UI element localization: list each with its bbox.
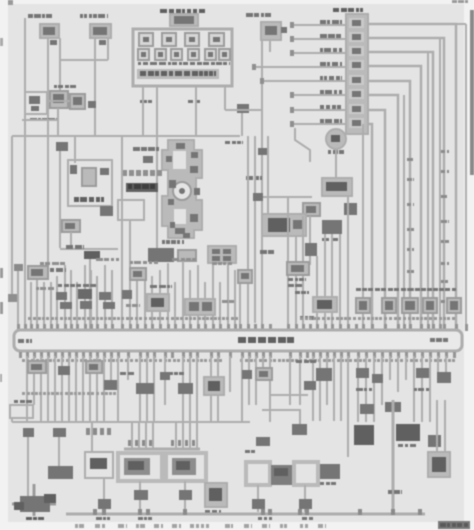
wire C100 pin 3 to PCM bbox=[368, 52, 433, 330]
wire pcm out x27 bbox=[26, 356, 28, 422]
label bb5 bbox=[120, 372, 126, 375]
label ignition coil bbox=[133, 147, 140, 151]
wire pcm out x147 bbox=[146, 356, 148, 422]
wire 310 down bbox=[309, 216, 311, 265]
label battery feed bbox=[80, 14, 83, 18]
wire pcm out x90 bbox=[89, 356, 91, 422]
label lr6 bbox=[388, 490, 392, 494]
wire sol right down bbox=[304, 485, 306, 512]
page number top right bbox=[452, 0, 457, 3]
distributor inner cavity bbox=[173, 151, 186, 169]
label dist lower bbox=[162, 240, 165, 244]
D1 body bbox=[265, 26, 277, 35]
distributor mark b bbox=[190, 166, 198, 173]
wire S1 down2 bbox=[59, 38, 61, 96]
inline connector mark bbox=[258, 148, 268, 155]
splice rung 6 bbox=[290, 92, 294, 98]
wire id label mid bbox=[407, 158, 413, 161]
splice rung 5 bbox=[260, 78, 264, 84]
margin caption bbox=[154, 524, 159, 528]
wire 268 down bbox=[267, 136, 269, 215]
servo M1 outline bbox=[68, 160, 112, 206]
mid a body bbox=[306, 206, 316, 213]
component ab6 bbox=[185, 299, 215, 315]
wire pcm out x438 bbox=[437, 356, 439, 380]
connector C100 shell bbox=[346, 14, 368, 134]
margin caption bbox=[118, 524, 124, 528]
ab9 body bbox=[317, 300, 332, 309]
wire id label mid bbox=[407, 270, 410, 273]
wire 296 down bbox=[295, 236, 297, 330]
C100 pin 1 bbox=[352, 20, 361, 26]
wire ll3 down bbox=[91, 422, 93, 452]
wire pcm pin x145 bbox=[144, 270, 146, 330]
label lower left box bbox=[14, 400, 18, 403]
margin caption bbox=[172, 524, 177, 528]
label rung 3 bbox=[320, 48, 323, 52]
label power distribution box bbox=[160, 9, 167, 13]
cluster bb6 bbox=[178, 383, 193, 394]
cluster bb10 bbox=[304, 381, 316, 390]
rb1 body bbox=[359, 301, 367, 310]
C100 pin 6 cavity bbox=[349, 89, 364, 99]
C100 pin 4 cavity bbox=[349, 60, 364, 70]
cluster lr4 bbox=[396, 424, 420, 441]
wire pcm pin x57 bbox=[56, 276, 58, 330]
component ab3 bbox=[130, 268, 146, 280]
solenoid box left bbox=[246, 462, 270, 485]
component lc2 bbox=[256, 437, 270, 446]
splice o2 left bbox=[134, 490, 148, 500]
label icm text bbox=[128, 184, 132, 189]
ab5 body bbox=[151, 298, 164, 307]
ground cluster l bbox=[14, 502, 24, 510]
wire jog bb bbox=[270, 356, 308, 395]
scan edge artifact right bbox=[470, 10, 474, 175]
HO2S left body bbox=[124, 458, 150, 475]
label bb11 bbox=[356, 388, 363, 391]
fuse F4 element bbox=[213, 37, 220, 42]
wire pcm out x249 bbox=[248, 356, 250, 405]
label ab9 bbox=[300, 316, 303, 320]
margin caption bbox=[262, 524, 267, 528]
distributor speck c bbox=[168, 199, 174, 205]
wire K1 down2 bbox=[107, 38, 109, 60]
label icm dark bar bbox=[126, 183, 158, 192]
wire main horizontal upper bbox=[12, 135, 240, 137]
fuse F1 element bbox=[143, 37, 149, 42]
wire pcm pin x175 bbox=[174, 282, 176, 330]
wire pcm out x320 bbox=[319, 356, 321, 421]
wire id label right bbox=[441, 195, 447, 198]
wire 90 down to PCM bbox=[89, 259, 91, 330]
wire pcm pin x112 bbox=[111, 270, 113, 330]
wire pcm pin x160 bbox=[159, 270, 161, 330]
component box ll4 bbox=[85, 452, 113, 478]
label bb6 bbox=[170, 372, 173, 375]
splice near fuse bbox=[237, 104, 249, 113]
fuse F8 element bbox=[191, 52, 196, 57]
relay grid m2 bbox=[223, 249, 231, 254]
wire id label mid bbox=[407, 248, 410, 251]
pin labels below left bbox=[22, 359, 25, 362]
wire J1-E2 bbox=[47, 100, 70, 102]
margin caption bbox=[190, 524, 194, 528]
rb5 body bbox=[450, 301, 458, 310]
wire pcm out x263 bbox=[262, 356, 264, 380]
scan mark topleft bbox=[8, 0, 13, 5]
PCM top pins bbox=[17, 324, 20, 331]
wire pcm pin x220 bbox=[219, 282, 221, 330]
C100 pin 7 bbox=[352, 106, 361, 112]
distributor speck f bbox=[183, 233, 190, 238]
rb2 body bbox=[385, 301, 393, 310]
C100 pin 5 cavity bbox=[349, 75, 364, 85]
speck row h bbox=[222, 300, 228, 303]
component small box lower bbox=[178, 250, 196, 261]
fuse F6 bbox=[155, 49, 166, 60]
speck row e bbox=[212, 262, 217, 265]
wire relay down2 bbox=[227, 263, 229, 330]
relay grid m1 bbox=[212, 249, 220, 254]
wire rung 4 left bbox=[252, 66, 346, 68]
wire pcm pin x205 bbox=[204, 282, 206, 330]
margin caption bbox=[318, 524, 323, 528]
module bracket box bbox=[118, 200, 144, 220]
wire 288 down bbox=[287, 197, 289, 330]
fuse box label bar bbox=[137, 69, 219, 79]
cluster bb11 bbox=[356, 368, 369, 378]
wire rung 2 left bbox=[290, 38, 346, 40]
wire pcm pin x190 bbox=[189, 270, 191, 330]
label ab8 a bbox=[288, 278, 293, 281]
wire left edge down bbox=[11, 136, 13, 296]
wire dist down1 bbox=[167, 263, 169, 330]
CKP mark bbox=[331, 135, 340, 142]
splice rung 7 bbox=[290, 107, 294, 113]
wire o2 right down bbox=[184, 481, 186, 512]
cluster bb5 bbox=[136, 383, 154, 394]
label rung 5 bbox=[320, 76, 323, 80]
HO2S left sensor box bbox=[118, 453, 162, 481]
cluster bb9 bbox=[316, 368, 332, 381]
fuse F2 bbox=[162, 33, 176, 46]
switch S1 bbox=[40, 24, 59, 38]
wire ll2 down bbox=[58, 437, 60, 470]
wire id label right bbox=[441, 170, 445, 173]
splice rung 8 bbox=[290, 121, 294, 127]
bb8 body bbox=[259, 371, 268, 377]
fuse F7 element bbox=[174, 52, 179, 57]
wire pcm pin x71 bbox=[70, 270, 72, 330]
label cluster mid-left bbox=[54, 85, 57, 88]
label lc3 bbox=[320, 482, 324, 485]
wire pcm pin x77 bbox=[76, 282, 78, 330]
sensor circle CKP bbox=[326, 129, 346, 149]
K1 body bbox=[93, 27, 107, 35]
stub o2l a bbox=[131, 423, 133, 449]
cluster ab2a2 bbox=[60, 302, 72, 309]
wire id band above bus right bbox=[300, 317, 303, 320]
wire C100 pin 5 to PCM bbox=[368, 81, 410, 330]
wire pcm out x382 bbox=[381, 356, 383, 405]
wire 332 down bbox=[331, 234, 333, 330]
main fuse F0 bbox=[170, 14, 198, 26]
junction box lower left bbox=[10, 405, 33, 418]
wire pcm out x446 bbox=[445, 356, 447, 380]
terminal upper left bbox=[14, 264, 23, 271]
component lc1 bbox=[292, 424, 307, 435]
relay grid m4 bbox=[223, 256, 231, 261]
PCM bottom pins bbox=[19, 352, 22, 358]
wire o2 left down bbox=[139, 481, 141, 512]
splice rung 3 bbox=[290, 50, 294, 56]
C100 pin 4 bbox=[352, 62, 361, 68]
cluster ab2c2 bbox=[103, 302, 115, 309]
scan mark left top bbox=[0, 38, 3, 46]
wire pcm pin x65 bbox=[64, 265, 66, 330]
splice o2 right bbox=[179, 490, 192, 500]
wire pcm out x97 bbox=[96, 356, 98, 422]
wire 255 down bbox=[254, 136, 256, 323]
splice sol left bbox=[252, 499, 265, 509]
scan mark left2 bbox=[0, 302, 3, 314]
wire rung 5 left bbox=[260, 80, 346, 82]
component lr1 bbox=[360, 404, 374, 414]
stub o2r a bbox=[175, 423, 177, 449]
wire left 48 down bbox=[47, 136, 49, 268]
stub o2l c bbox=[145, 423, 147, 449]
ll4 text bbox=[90, 458, 107, 469]
bb3 body bbox=[89, 364, 98, 370]
component mid a bbox=[303, 203, 320, 216]
ground cluster bottom left bbox=[12, 484, 56, 516]
wire id label right bbox=[441, 262, 445, 265]
C100 pin 8 cavity bbox=[349, 118, 364, 128]
wire from S1 left bbox=[24, 18, 26, 136]
margin caption right dark bbox=[438, 521, 470, 529]
cluster bb4 bbox=[104, 380, 117, 390]
ab7 body bbox=[241, 273, 249, 279]
fuse F7 bbox=[171, 49, 182, 60]
wire pcm pin x152 bbox=[151, 276, 153, 330]
wire pcm pin x235 bbox=[234, 270, 236, 330]
nul bbox=[294, 445, 296, 447]
wire K1 down bbox=[94, 38, 96, 136]
component rb3 bbox=[402, 298, 418, 313]
label rung 6 bbox=[320, 90, 324, 94]
splice rung 2 bbox=[290, 36, 294, 42]
wire id label mid bbox=[407, 178, 412, 181]
component bb3 bbox=[86, 361, 102, 373]
label c1 bbox=[205, 510, 210, 513]
fuse F8 bbox=[188, 49, 199, 60]
wire pcm pin x105 bbox=[104, 265, 106, 330]
J1 mark bbox=[29, 96, 40, 104]
fuse F10 element bbox=[222, 52, 227, 57]
speck row f bbox=[36, 287, 39, 290]
wire pcm out x300 bbox=[299, 356, 301, 405]
margin caption right text bbox=[440, 523, 446, 527]
wire C100 pin 6 to PCM bbox=[368, 95, 398, 330]
distributor speck b bbox=[191, 152, 198, 158]
fuse F4 bbox=[209, 33, 224, 46]
stub bbox=[11, 418, 13, 422]
speck row b bbox=[96, 258, 103, 261]
ab3 body bbox=[133, 271, 142, 277]
ground cluster mass bbox=[20, 496, 50, 512]
T1 body bbox=[65, 223, 75, 229]
component lr5 bbox=[428, 435, 441, 447]
label 262 bbox=[260, 250, 267, 254]
C100 pin 3 cavity bbox=[349, 46, 364, 56]
wire id label right bbox=[441, 300, 445, 303]
scan mark left bbox=[0, 268, 3, 278]
wire ll1 down bbox=[27, 437, 29, 502]
label rung 8 bbox=[320, 119, 324, 123]
C100 pin 5 bbox=[352, 77, 361, 83]
component ll2 bbox=[53, 428, 66, 437]
component bb1 bbox=[28, 361, 46, 373]
cluster ab2c bbox=[99, 292, 111, 300]
distributor cap mark bbox=[176, 143, 185, 149]
label small bbox=[66, 245, 73, 249]
wire id label mid bbox=[407, 288, 414, 291]
cluster bb12 bbox=[372, 374, 383, 383]
component dark box right bbox=[100, 206, 113, 216]
wire far left to PCM bbox=[17, 271, 19, 330]
component dark 310 bbox=[305, 243, 317, 256]
relay K1 bbox=[90, 24, 111, 38]
wire pcm out x358 bbox=[357, 356, 359, 422]
wire pcm pin x51 bbox=[50, 282, 52, 330]
label rung 4 bbox=[320, 62, 326, 66]
distributor mark c bbox=[169, 180, 176, 188]
relay cluster pin bbox=[293, 220, 302, 229]
splice block left bbox=[56, 142, 68, 151]
wire pcm out x256 bbox=[255, 356, 257, 405]
splice sol right bbox=[299, 499, 312, 509]
ground bus taps bbox=[93, 509, 97, 515]
wire id label right bbox=[441, 280, 444, 283]
component rb5 bbox=[447, 298, 461, 313]
component dark mass lower bbox=[148, 248, 174, 262]
fuse F5 bbox=[138, 49, 149, 60]
wire pcm pin x91 bbox=[90, 270, 92, 330]
wire 325 down bbox=[324, 234, 326, 330]
wire fuse to C bbox=[225, 109, 262, 111]
margin caption bbox=[95, 524, 100, 528]
label connector C100 bbox=[333, 8, 339, 12]
C100 pin 2 bbox=[352, 34, 361, 40]
wire pcm pin x44 bbox=[43, 282, 45, 330]
label g4 bbox=[258, 517, 262, 520]
wire pcm out x104 bbox=[103, 356, 105, 422]
wire pcm pin x37 bbox=[36, 265, 38, 330]
wire pcm out x211 bbox=[210, 356, 212, 422]
wire to label row bbox=[60, 248, 118, 250]
HO2S right sensor box bbox=[166, 453, 206, 481]
label power distribution text bbox=[140, 71, 146, 76]
wire cluster lower bbox=[22, 119, 58, 121]
label ab2 bbox=[58, 284, 62, 287]
relay grid m3 bbox=[212, 256, 220, 261]
solenoid bridge dark bbox=[271, 465, 293, 485]
ground bus bbox=[66, 513, 425, 516]
wire pcm out x190 bbox=[189, 356, 191, 422]
wire end terminal left bbox=[8, 294, 17, 302]
splice ab4 bbox=[122, 290, 132, 299]
wire splice down bbox=[241, 113, 243, 136]
scan mark left3 bbox=[0, 374, 2, 382]
fuse F9 bbox=[205, 49, 216, 60]
wire pcm out x48 bbox=[47, 356, 49, 422]
distributor speck a bbox=[166, 156, 172, 162]
component ab7 bbox=[238, 270, 252, 283]
speck row a bbox=[40, 262, 44, 265]
wire pcm out x197 bbox=[196, 356, 198, 422]
wire pcm out x414 bbox=[413, 356, 415, 422]
margin caption bbox=[280, 524, 283, 528]
margin caption bbox=[244, 524, 249, 528]
battery B1 bbox=[428, 452, 450, 477]
wire sol left down bbox=[257, 485, 259, 512]
splice rung 1 bbox=[290, 22, 294, 28]
fuse F3 element bbox=[189, 37, 195, 42]
wire right branch a bbox=[362, 124, 364, 330]
wire left 25 down bbox=[24, 136, 26, 330]
label g3 bbox=[138, 517, 143, 520]
label ckp bbox=[328, 150, 331, 154]
distributor mark d bbox=[190, 214, 198, 222]
cluster ab2a bbox=[56, 292, 67, 300]
splice ll4 bbox=[98, 499, 111, 509]
servo mark bbox=[100, 168, 109, 175]
wire C100 pin 7 to PCM bbox=[368, 110, 385, 330]
wire 248 down bbox=[247, 136, 249, 330]
component rb1 bbox=[356, 298, 370, 313]
HO2S right body bbox=[172, 458, 196, 475]
wire 303 down bbox=[302, 216, 304, 330]
fuse F5 element bbox=[141, 52, 146, 57]
K1 pin mark bbox=[99, 40, 106, 45]
wire pcm out x183 bbox=[182, 356, 184, 422]
wire rung 6 left bbox=[290, 94, 346, 96]
E2 body bbox=[73, 97, 82, 105]
ab8 body bbox=[291, 265, 304, 272]
servo inner coil bbox=[82, 168, 96, 186]
label ab1 bbox=[50, 268, 54, 272]
cluster ab2b bbox=[78, 289, 92, 299]
speck row d bbox=[172, 258, 179, 261]
wire lr5b down bbox=[444, 400, 446, 452]
PCM id right bbox=[430, 338, 435, 342]
wire right branch b bbox=[403, 95, 405, 330]
wire pcm out x374 bbox=[373, 356, 375, 422]
fuse ratings row bbox=[138, 62, 141, 65]
wire T1 down bbox=[70, 232, 72, 248]
solenoid text bbox=[274, 468, 288, 476]
component lr2 bbox=[385, 402, 401, 412]
label ab8 b bbox=[288, 284, 294, 287]
S1 pin mark bbox=[50, 40, 57, 45]
margin caption bbox=[300, 524, 303, 528]
PCM powertrain control module bar bbox=[14, 330, 462, 351]
wire pcm pin x137 bbox=[136, 276, 138, 330]
wire pcm out x128 bbox=[127, 356, 129, 380]
wire pcm out x83 bbox=[82, 356, 84, 422]
label under cluster bbox=[30, 118, 37, 121]
